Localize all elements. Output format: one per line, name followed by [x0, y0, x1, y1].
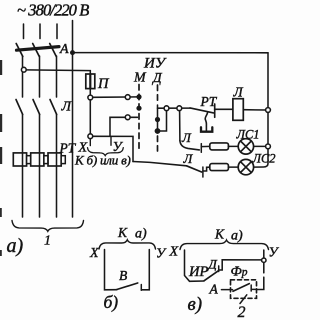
svg-text:Д: Д	[207, 257, 218, 272]
svg-text:ЛС2: ЛС2	[252, 152, 276, 166]
wire phase L3 top stub	[56, 24, 58, 39]
lamp ЛС1	[238, 139, 253, 154]
junction dot neutral to control bus	[70, 50, 75, 55]
contact fixed tick inside box	[250, 285, 252, 291]
wire node to contact M	[93, 96, 138, 98]
wire tick to resistor 2	[203, 167, 210, 171]
wire top control bus horizontal	[73, 52, 269, 54]
contact blade inside box	[233, 284, 249, 292]
bus node at lamp 1	[266, 144, 271, 149]
svg-text:К б) или в): К б) или в)	[74, 153, 131, 168]
wire resistor 2 to lamp 2	[228, 166, 238, 168]
wire neutral N vertical	[72, 21, 74, 218]
wire Y to ЛС2 contact	[133, 162, 187, 166]
wire phase L1 lower	[22, 115, 24, 218]
terminal circle Д wire	[164, 106, 169, 111]
contact Л aux2 fixed tick	[202, 167, 204, 177]
wire Д to РТ contact	[158, 107, 191, 109]
svg-text:Х: Х	[169, 245, 179, 260]
svg-text:Л: Л	[233, 85, 244, 100]
bus node at coil	[266, 108, 271, 113]
node below fuse	[88, 95, 93, 100]
junction dot M lower	[136, 106, 141, 111]
scan artifact left edge 3	[0, 147, 2, 164]
contact Д fixed tick в	[218, 266, 220, 272]
svg-text:К: К	[117, 225, 128, 240]
two-wire slash mark	[240, 295, 247, 304]
wire second to contact M	[110, 117, 138, 136]
terminal circle on second M wire	[125, 115, 130, 120]
contactor Л pole 1 blade	[16, 100, 23, 115]
wire right bus vertical	[254, 53, 268, 167]
switch A pole 3 blade	[50, 44, 57, 57]
thermal relay РТ heater 1	[13, 153, 26, 166]
svg-text:Л: Л	[183, 151, 194, 166]
junction dot Д lower	[155, 128, 161, 134]
tick under Y	[110, 137, 112, 146]
svg-text:а): а)	[231, 229, 243, 244]
wire в right vertical lower	[263, 262, 265, 272]
svg-text:2: 2	[238, 304, 246, 320]
wire X to Y corner	[93, 136, 133, 161]
svg-text:а): а)	[7, 235, 24, 257]
switch A pole 2 blade	[33, 44, 40, 57]
wire phase L2 top stub	[39, 24, 41, 39]
brace under motor feeder	[12, 221, 84, 232]
node circle У branch	[262, 258, 266, 262]
svg-text:Л: Л	[61, 100, 73, 115]
svg-text:Л: Л	[181, 130, 192, 145]
terminal X circle	[88, 134, 93, 139]
wire coil to bus	[243, 109, 265, 111]
wire б right side	[141, 250, 149, 290]
contactor Л pole 2 blade	[33, 100, 40, 115]
scan artifact left edge 1	[0, 60, 2, 75]
fuse П	[86, 74, 95, 89]
svg-text:Фр: Фр	[231, 265, 248, 280]
wire РТ to coil	[215, 108, 233, 110]
svg-text:М: М	[133, 71, 147, 86]
node circle branch to Л contact	[177, 106, 182, 111]
contact Д dashed line upper	[157, 85, 159, 103]
resistor R2	[210, 164, 229, 171]
resistor R1	[210, 143, 229, 150]
РТ contact fixed tick	[214, 104, 216, 117]
wire branch down to ЛС1 contact	[179, 111, 181, 141]
contact Д dashed line lower	[157, 136, 159, 151]
svg-text:~ 380/220 В: ~ 380/220 В	[17, 1, 89, 20]
wire tap to fuse	[26, 70, 90, 74]
wire resistor 1 to lamp	[228, 145, 238, 147]
terminal circle on M wire	[125, 95, 130, 100]
switch В fixed tick	[140, 285, 142, 291]
switch A pole 1 blade	[16, 44, 23, 57]
svg-text:П: П	[97, 76, 110, 92]
brace under X Y	[88, 148, 124, 156]
wire phase L3 lower	[56, 115, 58, 218]
thermal relay РТ heater link 1	[27, 156, 31, 164]
wire box to right vertical	[251, 288, 257, 290]
svg-text:А: А	[59, 42, 69, 57]
svg-text:Х: Х	[89, 246, 99, 261]
thermal relay РТ heater 3	[48, 153, 61, 166]
svg-text:А: А	[209, 282, 219, 297]
wire phase L2 lower	[39, 115, 41, 218]
junction dot M upper	[136, 94, 141, 99]
contact Л aux1 blade	[180, 141, 199, 150]
brace К а) over б	[99, 240, 156, 249]
wire phase L3 mid	[56, 56, 58, 97]
svg-text:в): в)	[188, 294, 203, 315]
wire Д step to Y	[219, 260, 262, 270]
svg-text:б): б)	[104, 292, 119, 312]
scan artifact left edge 4	[0, 208, 2, 217]
wire tick to resistor 1	[201, 145, 210, 147]
contact M dashed line	[138, 85, 140, 152]
svg-text:1: 1	[44, 234, 51, 249]
coil Л	[233, 99, 243, 121]
tick under X	[89, 139, 91, 146]
thermal relay РТ heater 2	[31, 153, 44, 166]
svg-text:ИР: ИР	[188, 264, 208, 280]
node tap on L1	[21, 67, 26, 72]
contact Д solid segment	[157, 105, 159, 133]
wire phase L1 mid	[22, 56, 24, 97]
wire node down to X	[89, 100, 91, 134]
junction dot Д upper	[155, 117, 160, 122]
svg-text:К: К	[214, 227, 225, 242]
scan artifact left edge 2	[0, 114, 2, 132]
thermal element stem	[205, 113, 207, 131]
lamp ЛС2	[238, 159, 253, 174]
wire в left vertical	[185, 250, 205, 281]
contact Л aux2 blade	[187, 166, 202, 172]
contactor Л pole 3 blade	[50, 100, 57, 115]
svg-text:Д: Д	[151, 70, 163, 85]
wire phase L1 top stub	[23, 24, 25, 39]
wire lamp 1 to bus	[254, 145, 266, 147]
wire Д loop	[158, 111, 167, 131]
thermal element cup	[201, 127, 212, 131]
contact Д blade в	[204, 271, 218, 281]
svg-text:В: В	[119, 268, 127, 283]
svg-text:ЛС1: ЛС1	[236, 128, 260, 142]
scan artifact left edge 5	[0, 250, 2, 256]
wire phase L2 mid	[39, 56, 41, 97]
contact Л aux1 fixed tick	[200, 144, 202, 153]
РТ contact blade	[190, 108, 214, 113]
wire б left vertical	[105, 250, 117, 290]
switch A link bar	[17, 47, 60, 51]
photoresistor box dashed	[231, 280, 257, 299]
brace К а) over в	[180, 240, 269, 250]
thermal relay РТ heater link 2	[44, 156, 48, 164]
wire fuse to node	[89, 89, 91, 96]
switch В blade	[117, 283, 138, 290]
thermal relay РТ heater link 3	[61, 156, 65, 164]
svg-text:а): а)	[135, 227, 147, 242]
wire в right vertical upper	[263, 250, 265, 258]
wire А into box	[222, 289, 233, 291]
